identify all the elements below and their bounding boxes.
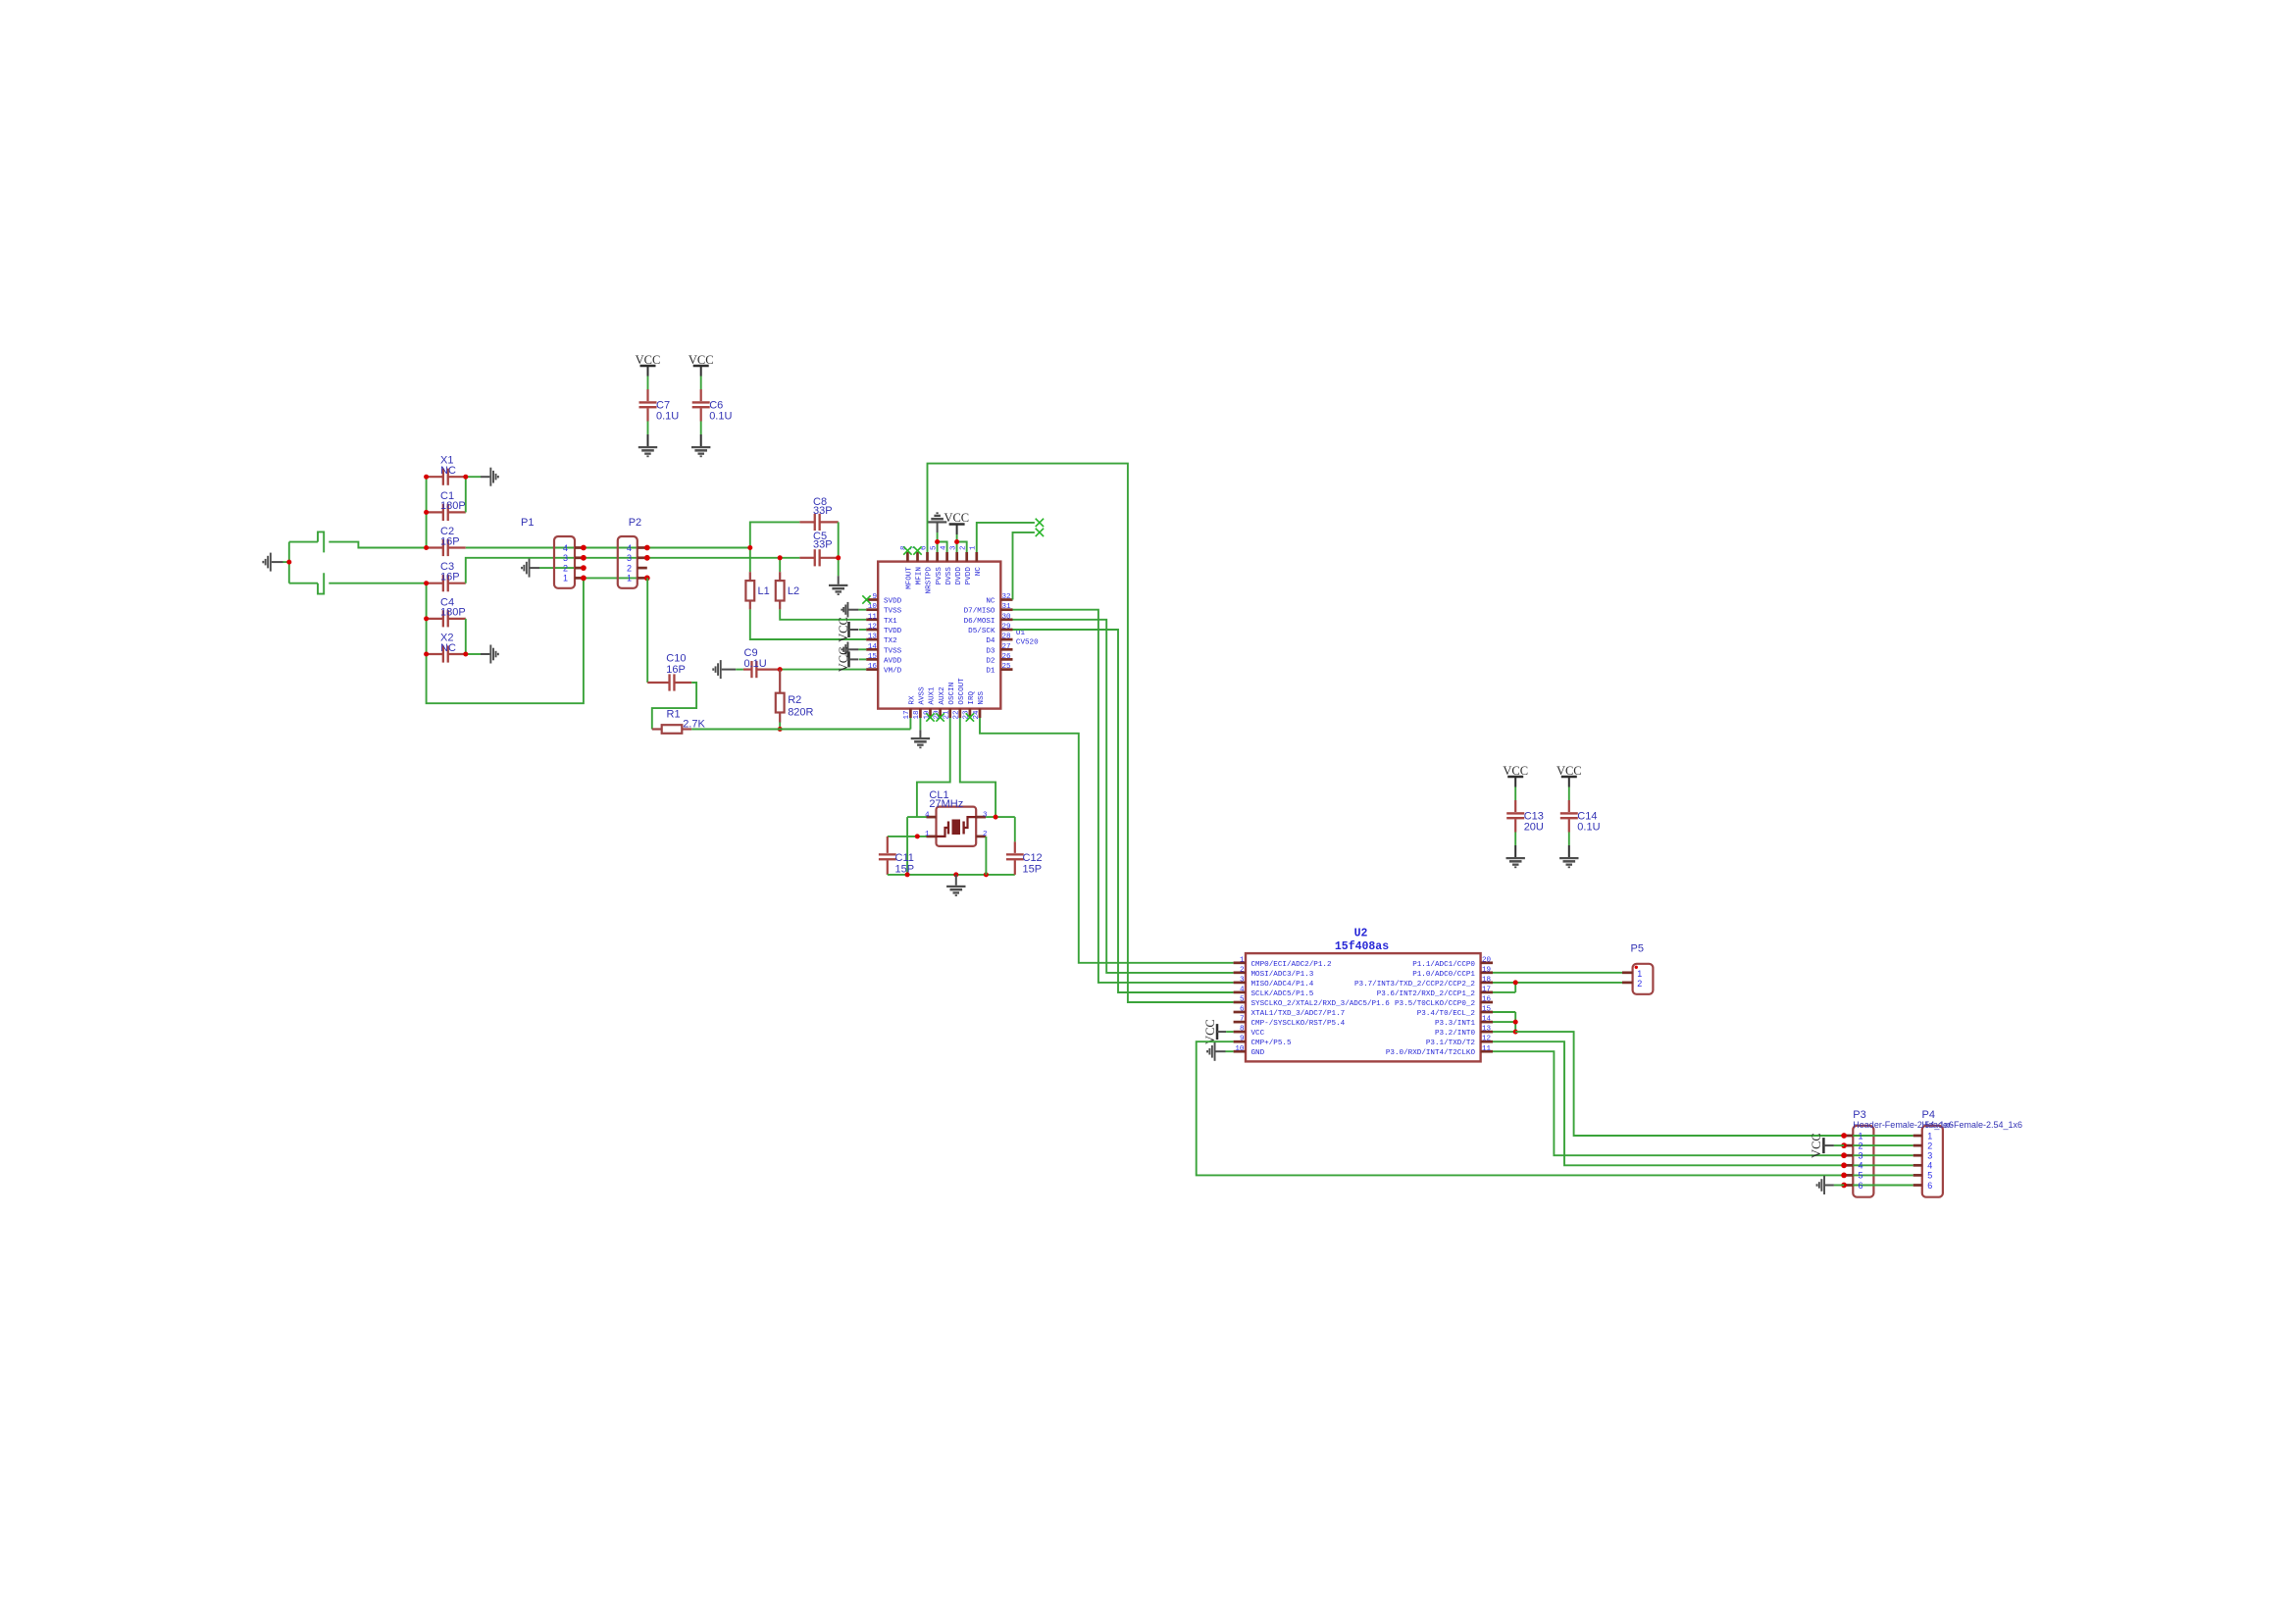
svg-text:1: 1 (563, 574, 568, 583)
svg-text:OSCOUT: OSCOUT (958, 678, 966, 705)
junction (rail left) (905, 872, 910, 877)
svg-text:MISO/ADC4/P1.4: MISO/ADC4/P1.4 (1251, 981, 1314, 989)
svg-text:NRSTPD: NRSTPD (926, 567, 934, 594)
no-connect X (U1 pin23) (966, 713, 974, 721)
wire (crystal ground rail) (888, 874, 1015, 876)
svg-text:L1: L1 (758, 585, 770, 597)
svg-text:CMP-/SYSCLKO/RST/P5.4: CMP-/SYSCLKO/RST/P5.4 (1251, 1020, 1346, 1028)
power flag VCC + capacitor C13 20U + ground (1503, 764, 1544, 868)
svg-text:13: 13 (868, 634, 878, 641)
wire D6/MOSI to U2 pin2 (1013, 620, 1234, 973)
svg-text:5: 5 (1927, 1171, 1932, 1181)
junction (C3 left) (424, 581, 429, 585)
svg-text:C10: C10 (666, 653, 686, 665)
svg-text:VCC: VCC (1203, 1019, 1217, 1044)
ground (U1 pin18 AVSS) (911, 718, 930, 748)
svg-text:4: 4 (1927, 1161, 1932, 1171)
svg-text:TVDD: TVDD (884, 628, 902, 635)
svg-text:15: 15 (868, 653, 878, 661)
svg-text:CMP+/P5.5: CMP+/P5.5 (1251, 1040, 1292, 1047)
svg-text:P1.1/ADC1/CCP0: P1.1/ADC1/CCP0 (1412, 961, 1475, 969)
wire (C8 right down to C5) (838, 522, 840, 557)
ground (crystal) (946, 875, 965, 896)
svg-text:0.1U: 0.1U (656, 411, 679, 423)
ground (U1 PVSS/DVSS flipped) (928, 512, 947, 552)
svg-text:C12: C12 (1023, 852, 1043, 864)
no-connect X (U1 pin7) (913, 546, 921, 554)
svg-text:L2: L2 (788, 585, 799, 597)
ground (X2) (466, 645, 499, 664)
svg-text:1: 1 (1240, 956, 1245, 964)
junction (C4 left) (424, 616, 429, 621)
svg-text:VCC: VCC (1810, 1133, 1823, 1158)
svg-text:7: 7 (1240, 1016, 1245, 1024)
svg-text:D4: D4 (986, 637, 995, 645)
svg-text:P3.6/INT2/RXD_2/CCP1_2: P3.6/INT2/RXD_2/CCP1_2 (1377, 990, 1476, 998)
capacitor C2 16P (427, 526, 466, 556)
svg-text:5: 5 (1859, 1171, 1863, 1181)
junction (rail right) (984, 872, 989, 877)
wire (CL1 pin2 to rail) (985, 837, 987, 875)
svg-text:2: 2 (1927, 1141, 1932, 1150)
ground (X1) (466, 468, 499, 486)
junction (L2 top) (778, 555, 783, 560)
svg-text:P3.4/T0/ECL_2: P3.4/T0/ECL_2 (1417, 1010, 1476, 1018)
wire net RF2 (C3 jog row) (466, 558, 800, 583)
svg-text:TX2: TX2 (884, 637, 897, 645)
connector P3 Header-Female-2.54_1x6 (1841, 1109, 1954, 1197)
svg-text:3: 3 (983, 811, 988, 819)
svg-text:3: 3 (563, 553, 568, 563)
ground (P1 pin2) (521, 559, 584, 578)
capacitor C4 180P (427, 596, 466, 627)
junction (C5 right) (836, 555, 841, 560)
wire (CL1 pin1 to C11) (888, 836, 927, 837)
svg-text:SVDD: SVDD (884, 598, 902, 606)
svg-text:R2: R2 (788, 694, 801, 706)
resistor R1 2.7K (652, 709, 911, 734)
svg-text:MFIN: MFIN (916, 567, 924, 584)
svg-text:NC: NC (975, 567, 983, 577)
wire (pin15/14/13 tie) (1493, 1012, 1515, 1032)
svg-text:6: 6 (1927, 1181, 1932, 1191)
svg-text:P3.0/RXD/INT4/T2CLKO: P3.0/RXD/INT4/T2CLKO (1386, 1049, 1476, 1057)
svg-text:4: 4 (1240, 986, 1245, 993)
svg-text:P2: P2 (629, 517, 641, 529)
svg-text:27MHz: 27MHz (929, 798, 963, 810)
svg-text:CMP0/ECI/ADC2/P1.2: CMP0/ECI/ADC2/P1.2 (1251, 961, 1332, 969)
svg-text:15f408as: 15f408as (1335, 940, 1389, 953)
capacitor C9 0.1U (with ground) (712, 647, 780, 679)
svg-text:11: 11 (1482, 1045, 1492, 1053)
crystal CL1 27MHz (925, 789, 988, 846)
svg-text:5: 5 (1240, 996, 1245, 1004)
svg-text:P5: P5 (1631, 943, 1644, 955)
svg-text:U2: U2 (1354, 928, 1368, 940)
svg-text:Header-Female-2.54_1x6: Header-Female-2.54_1x6 (1922, 1120, 2023, 1130)
svg-text:820R: 820R (788, 707, 813, 719)
svg-text:1: 1 (1859, 1131, 1863, 1141)
power flag VCC (U1 pin12 TVDD) (837, 617, 866, 642)
svg-text:9: 9 (1240, 1036, 1245, 1043)
antenna plug symbol (wires) (289, 532, 427, 593)
wire OSCIN to crystal (917, 718, 950, 817)
junction (X1 left) (424, 475, 429, 480)
svg-text:P3.3/INT1: P3.3/INT1 (1435, 1020, 1475, 1028)
svg-text:P3.7/INT3/TXD_2/CCP2/CCP2_2: P3.7/INT3/TXD_2/CCP2/CCP2_2 (1354, 981, 1475, 989)
svg-text:P1: P1 (521, 517, 534, 529)
svg-text:1: 1 (925, 831, 930, 838)
svg-text:TVSS: TVSS (884, 647, 902, 655)
svg-text:D3: D3 (986, 647, 995, 655)
capacitor C3 16P (427, 561, 466, 591)
wire (chain bottom to P1 pin1) (427, 578, 584, 703)
junction (U1 pin3 vcc) (954, 539, 959, 544)
wire (C9 to U1 pin16) (780, 669, 866, 671)
svg-text:PVSS: PVSS (936, 567, 944, 585)
svg-text:4: 4 (925, 811, 930, 819)
svg-text:R1: R1 (667, 709, 681, 721)
svg-text:28: 28 (1002, 634, 1012, 641)
svg-text:XTAL1/TXD_3/ADC7/P1.7: XTAL1/TXD_3/ADC7/P1.7 (1251, 1010, 1346, 1018)
junction (C1 left) (424, 510, 429, 515)
svg-text:1: 1 (1637, 969, 1642, 979)
wire (left cap chain) (426, 477, 428, 547)
svg-text:AVSS: AVSS (919, 686, 927, 705)
svg-text:4: 4 (1859, 1161, 1863, 1171)
svg-text:15P: 15P (1023, 864, 1043, 876)
wire D7/MISO to U2 pin3 (1013, 610, 1234, 983)
svg-text:16P: 16P (440, 572, 460, 583)
wire OSCOUT to crystal (960, 718, 995, 817)
junction (U2 pin14) (1513, 1020, 1518, 1025)
wire (left cap chain lower) (426, 583, 428, 654)
junction (C2 left) (424, 545, 429, 550)
ground (U1 pin14 TVSS) (841, 642, 866, 658)
wire (U2 pin11 to P3.3) (1493, 1051, 1844, 1155)
svg-text:3: 3 (627, 553, 632, 563)
power flag VCC + capacitor C14 0.1U + ground (1556, 764, 1601, 868)
wire (U2 pin9 to P3.5) (1197, 1041, 1844, 1175)
junction (U2 pin13) (1513, 1030, 1518, 1035)
connector P5 (2-pin) (1622, 943, 1653, 994)
inductor L2 (776, 558, 866, 620)
connector P4 Header-Female-2.54_1x6 (1913, 1109, 2022, 1197)
power flag VCC + capacitor C6 0.1U + ground (689, 353, 733, 457)
no-connect X (U1 pin9) (862, 595, 870, 603)
svg-text:P3.1/TXD/T2: P3.1/TXD/T2 (1426, 1040, 1476, 1047)
svg-text:15P: 15P (895, 864, 915, 876)
svg-text:U1: U1 (1016, 630, 1026, 637)
svg-text:0.1U: 0.1U (744, 658, 767, 670)
junction (CL1 pin3) (994, 815, 998, 820)
svg-text:SYSCLKO_2/XTAL2/RXD_3/ADC5/P1.: SYSCLKO_2/XTAL2/RXD_3/ADC5/P1.6 (1251, 1000, 1391, 1008)
capacitor C1 180P (427, 490, 466, 521)
wire (U2 pin18 to P5.2) (1493, 982, 1622, 984)
svg-text:CV520: CV520 (1016, 639, 1039, 647)
svg-text:D1: D1 (986, 668, 995, 676)
svg-text:14: 14 (1482, 1016, 1492, 1024)
connector P1 (4-pin) (521, 517, 587, 588)
svg-text:16P: 16P (666, 664, 686, 676)
wire (pin13 node to P3.1) (1515, 1032, 1844, 1136)
wire NSS to U2 pin1 (980, 718, 1234, 963)
wire (gnd drop left of crystal) (907, 817, 926, 875)
svg-text:3: 3 (1859, 1151, 1863, 1161)
no-connect X (U1 pin8) (903, 546, 911, 554)
svg-text:P1.0/ADC0/CCP1: P1.0/ADC0/CCP1 (1412, 971, 1475, 979)
svg-text:NC: NC (986, 598, 995, 606)
wire+X (U1 pin32 NC) (1013, 529, 1045, 600)
svg-text:16: 16 (868, 663, 878, 671)
svg-text:NSS: NSS (978, 690, 986, 704)
wire (P2.4 to C8 branch) (750, 522, 800, 547)
power flag VCC (U2 pin8) (1203, 1019, 1234, 1044)
wire (pin18-pin17 tie) (1493, 983, 1515, 992)
svg-text:MOSI/ADC3/P1.3: MOSI/ADC3/P1.3 (1251, 971, 1314, 979)
svg-text:P4: P4 (1922, 1109, 1935, 1121)
svg-text:D2: D2 (986, 657, 995, 665)
svg-text:OSCIN: OSCIN (948, 683, 956, 705)
wire D5/SCK to U2 pin4 (1013, 630, 1234, 992)
svg-text:180P: 180P (440, 607, 466, 619)
capacitor C8 33P (799, 496, 838, 531)
junction (R2 bottom) (778, 727, 783, 732)
power flag VCC (U1 DVDD/PVDD) (944, 511, 969, 552)
inductor L1 (745, 548, 866, 640)
svg-text:NC: NC (440, 465, 456, 477)
svg-text:D5/SCK: D5/SCK (968, 628, 995, 635)
connector P2 (4-pin) (618, 517, 650, 588)
ground (antenna) (262, 553, 288, 572)
junction (rail mid) (953, 872, 958, 877)
svg-text:GND: GND (1251, 1049, 1265, 1057)
wire (C4-X2 right) (465, 619, 467, 654)
svg-text:3: 3 (1927, 1151, 1932, 1161)
svg-text:33P: 33P (813, 505, 833, 517)
wire+ground (C5 right) (829, 558, 847, 595)
capacitor X2 NC (427, 633, 466, 663)
svg-text:SCLK/ADC5/P1.5: SCLK/ADC5/P1.5 (1251, 990, 1314, 998)
svg-text:PVDD: PVDD (965, 567, 973, 585)
svg-text:VCC: VCC (1251, 1030, 1265, 1038)
svg-text:2: 2 (1240, 966, 1245, 974)
svg-text:TVSS: TVSS (884, 608, 902, 616)
svg-text:VM/D: VM/D (884, 668, 902, 676)
svg-text:0.1U: 0.1U (709, 411, 732, 423)
svg-text:VCC: VCC (837, 647, 850, 673)
capacitor C11 15P (879, 837, 914, 876)
svg-text:AUX1: AUX1 (929, 686, 937, 705)
svg-text:9: 9 (872, 593, 877, 601)
power flag VCC (P3 pin2) (1810, 1133, 1844, 1158)
ground (U2 pin10 GND) (1206, 1042, 1234, 1061)
svg-text:6: 6 (1859, 1181, 1863, 1191)
svg-text:C11: C11 (895, 852, 914, 864)
no-connect X (U1 pin19) (926, 713, 934, 721)
svg-text:12: 12 (1482, 1036, 1492, 1043)
svg-text:27: 27 (1002, 643, 1011, 651)
junction (U1 pin5 gnd) (935, 539, 940, 544)
svg-text:26: 26 (1002, 653, 1012, 661)
svg-text:AVDD: AVDD (884, 657, 902, 665)
svg-text:MFOUT: MFOUT (906, 567, 914, 589)
svg-text:20U: 20U (1524, 822, 1544, 834)
svg-text:2.7K: 2.7K (683, 718, 705, 730)
wire (CL1 pin3 node) (986, 817, 1015, 841)
svg-text:P3: P3 (1853, 1109, 1865, 1121)
svg-text:3: 3 (1240, 976, 1245, 984)
svg-text:0.1U: 0.1U (1577, 822, 1600, 834)
svg-text:AUX2: AUX2 (939, 686, 946, 705)
svg-text:14: 14 (868, 643, 878, 651)
svg-text:D7/MISO: D7/MISO (964, 608, 995, 616)
svg-text:15: 15 (1482, 1006, 1492, 1014)
svg-text:25: 25 (1002, 663, 1012, 671)
svg-text:18: 18 (1482, 976, 1492, 984)
svg-text:VCC: VCC (837, 617, 850, 642)
wire net RF1 (C2 row) (466, 547, 750, 549)
svg-text:19: 19 (1482, 966, 1492, 974)
svg-text:P3.5/T0CLKO/CCP0_2: P3.5/T0CLKO/CCP0_2 (1395, 1000, 1475, 1008)
ground (P3 pin6) (1816, 1176, 1845, 1194)
wire (U2 pin19 to P5.1) (1493, 972, 1622, 974)
svg-text:2: 2 (1637, 979, 1642, 989)
wire RX row (R1 to pin17) (909, 718, 911, 730)
svg-text:180P: 180P (440, 500, 466, 512)
svg-text:33P: 33P (813, 538, 833, 550)
junction (CL1 pin1) (915, 834, 920, 838)
power flag VCC (U1 pin15 AVDD) (837, 647, 866, 673)
svg-text:RX: RX (909, 695, 917, 705)
junction (X2 left) (424, 652, 429, 657)
wire NRSTPD to U2 pin5 (928, 464, 1234, 1002)
svg-text:DVSS: DVSS (945, 567, 953, 585)
wire+X (U1 pin1 NC) (977, 519, 1044, 552)
svg-text:4: 4 (627, 543, 632, 553)
svg-text:12: 12 (868, 624, 878, 632)
svg-text:29: 29 (1002, 624, 1012, 632)
capacitor C10 16P (with P2.1 drop wire) (647, 578, 696, 729)
svg-text:TX1: TX1 (884, 618, 897, 626)
svg-text:2: 2 (627, 563, 632, 573)
svg-text:10: 10 (1235, 1045, 1245, 1053)
svg-text:17: 17 (1482, 986, 1491, 993)
svg-text:11: 11 (868, 613, 878, 621)
power flag VCC + capacitor C7 0.1U + ground (636, 353, 680, 457)
wire (U2 pin12 to P3.4) (1493, 1041, 1844, 1165)
svg-text:20: 20 (1482, 956, 1492, 964)
junction (U2 pin18) (1513, 980, 1518, 985)
svg-text:10: 10 (868, 603, 878, 611)
IC U2 15f408as (20-pin) (1234, 928, 1493, 1062)
wire (P1.1-P2.1) (584, 577, 647, 579)
svg-text:DVDD: DVDD (955, 567, 963, 585)
svg-text:4: 4 (563, 543, 568, 553)
junction (X1 right) (463, 475, 468, 480)
ground (U1 pin10 TVSS) (841, 602, 866, 618)
junction (antenna ground tap) (286, 560, 291, 565)
IC U1 CV520 (32-pin) (866, 545, 1039, 720)
no-connect X (U1 pin20) (936, 713, 944, 721)
svg-text:16: 16 (1482, 996, 1492, 1004)
capacitor C5 33P (799, 531, 838, 567)
svg-text:30: 30 (1002, 613, 1012, 621)
svg-text:IRQ: IRQ (968, 690, 976, 704)
svg-text:P3.2/INT0: P3.2/INT0 (1435, 1030, 1475, 1038)
junction (C9/R2/VM-D) (778, 667, 783, 672)
svg-text:13: 13 (1482, 1026, 1492, 1034)
capacitor X1 NC (427, 455, 466, 485)
svg-text:D6/MOSI: D6/MOSI (964, 618, 995, 626)
svg-text:31: 31 (1002, 603, 1012, 611)
resistor R2 820R (776, 670, 814, 730)
wire (X1-C1 right) (465, 477, 467, 512)
svg-text:1: 1 (1927, 1131, 1932, 1141)
capacitor C12 15P (1006, 841, 1043, 875)
svg-text:VCC: VCC (944, 511, 969, 525)
junction (L1 top) (747, 545, 752, 550)
junction (X2 right) (463, 652, 468, 657)
svg-text:8: 8 (1240, 1026, 1245, 1034)
svg-text:1: 1 (627, 574, 632, 583)
svg-text:32: 32 (1002, 593, 1012, 601)
svg-text:NC: NC (440, 642, 456, 654)
svg-text:2: 2 (563, 563, 568, 573)
svg-text:2: 2 (1859, 1141, 1863, 1150)
svg-text:16P: 16P (440, 535, 460, 547)
svg-text:6: 6 (1240, 1006, 1245, 1014)
